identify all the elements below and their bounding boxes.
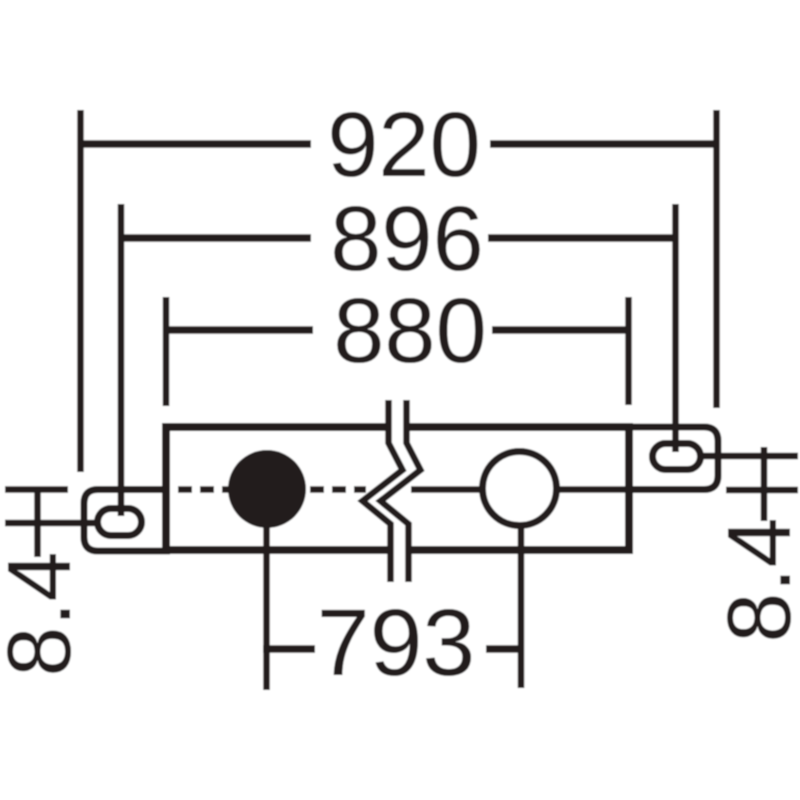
left 8.4 tick at centerline [5, 486, 68, 493]
right tab slot hole [653, 444, 701, 470]
break zigzag line left [363, 400, 403, 582]
right 8.4 tick at centerline [726, 487, 798, 494]
right mounting tab [625, 427, 718, 490]
left mounting tab [84, 490, 170, 552]
svg-text:8.4: 8.4 [0, 551, 90, 676]
extension line 920 right [713, 110, 720, 408]
lamp socket filled circle [228, 450, 306, 528]
dimension line 880 [166, 326, 313, 334]
dimension line 896 [121, 234, 311, 242]
centerline dashed (left half) [178, 486, 366, 493]
extension line 880 right [625, 297, 632, 405]
lamp socket open circle [483, 452, 557, 526]
right 8.4 tick at slot center [702, 453, 798, 460]
svg-text:880: 880 [333, 280, 487, 382]
svg-text:8.4: 8.4 [710, 517, 800, 642]
dimension line 793 [263, 645, 315, 653]
left tab slot hole [98, 509, 142, 536]
left 8.4 dimension line [34, 490, 41, 557]
left 8.4 tick at slot center [5, 520, 95, 527]
break zigzag line right [381, 400, 421, 582]
extension line 793 right (from open circle) [518, 524, 525, 688]
extension line 896 left (into left slot) [118, 204, 125, 516]
svg-text:920: 920 [327, 94, 481, 196]
body rectangle (fixture housing) [166, 427, 629, 550]
break symbol white gap [372, 396, 412, 586]
dimension line 920 [80, 140, 311, 148]
extension line 880 left [163, 297, 170, 406]
centerline solid (right half) [411, 486, 651, 493]
svg-text:793: 793 [317, 590, 476, 696]
extension line 896 right (into right slot) [672, 204, 679, 452]
right 8.4 dimension line [761, 447, 768, 521]
extension line 920 left [77, 110, 84, 472]
svg-text:896: 896 [330, 188, 484, 290]
extension line 793 left (from filled circle) [263, 505, 270, 690]
